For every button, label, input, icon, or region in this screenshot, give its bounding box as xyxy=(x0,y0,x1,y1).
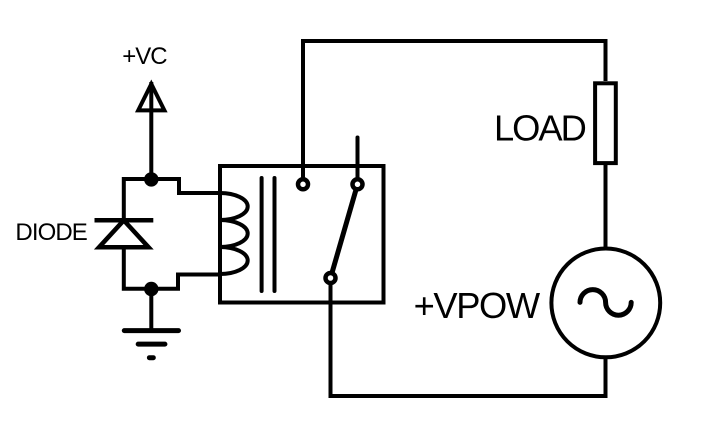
svg-text:+VPOW: +VPOW xyxy=(414,285,541,326)
svg-text:LOAD: LOAD xyxy=(494,107,586,148)
svg-text:+VC: +VC xyxy=(122,43,167,70)
svg-text:DIODE: DIODE xyxy=(15,219,87,246)
